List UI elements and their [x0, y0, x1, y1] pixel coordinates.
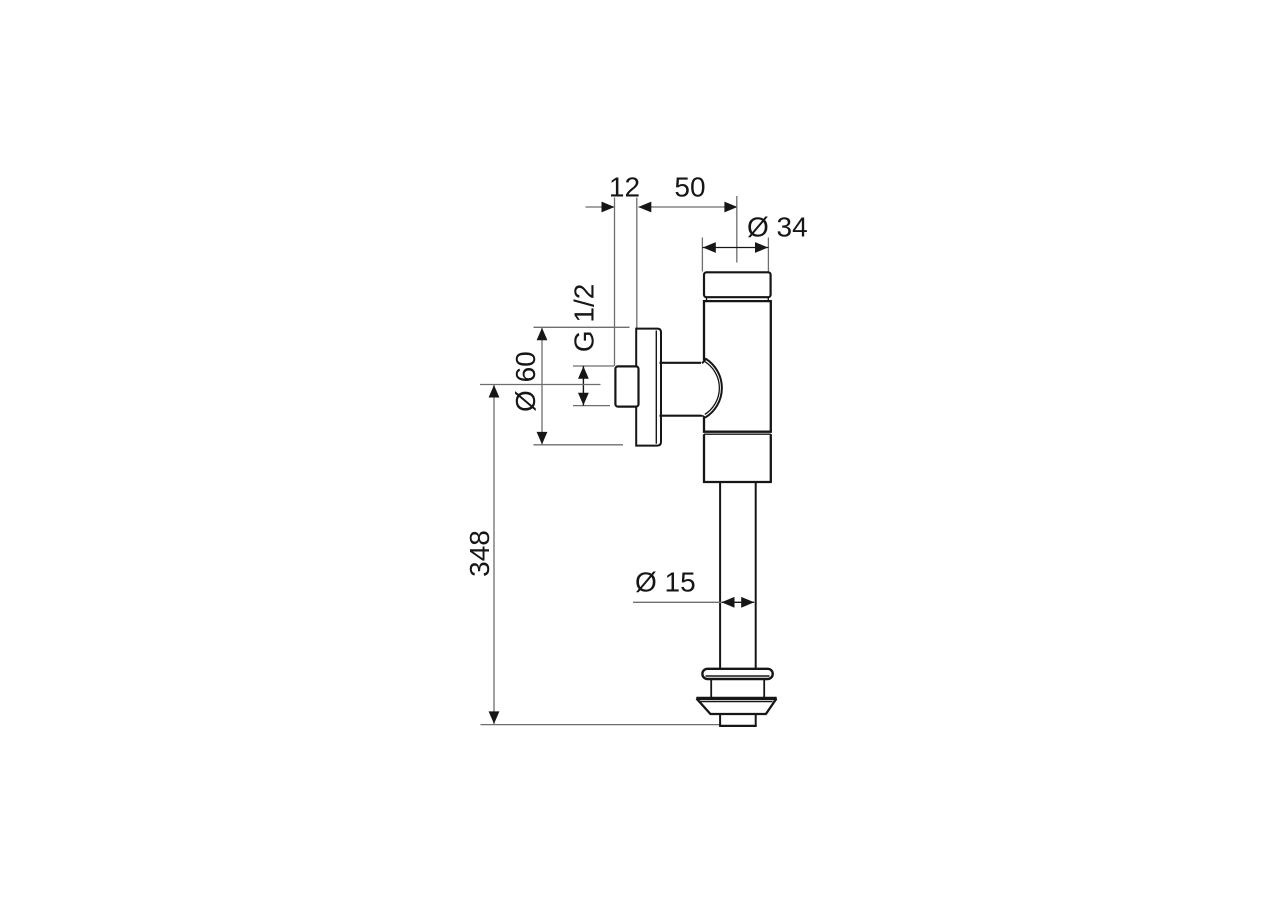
tailpiece capsule inner line — [706, 675, 770, 677]
dimension line 50 — [639, 206, 738, 208]
tailpiece nut right edge — [763, 679, 765, 697]
d15 arrow line — [722, 601, 755, 603]
dimension leader line left of 12 — [586, 206, 615, 208]
svg-text:G 1/2: G 1/2 — [568, 284, 599, 352]
cap collar groove right edge — [767, 297, 769, 301]
cap collar groove left edge — [706, 297, 708, 301]
svg-text:Ø 60: Ø 60 — [510, 351, 541, 412]
svg-text:348: 348 — [464, 530, 495, 577]
svg-text:Ø 15: Ø 15 — [635, 567, 696, 598]
svg-text:50: 50 — [674, 171, 705, 202]
arrowhead pointing right at 12 left extension — [602, 202, 615, 213]
inlet pipe top edge — [660, 362, 703, 364]
tailpiece cone top thick edge — [696, 697, 776, 701]
tailpiece stub left wall — [719, 714, 721, 726]
extension line 12 left — [614, 198, 616, 367]
tailpiece stub bottom edge — [719, 725, 757, 727]
outlet pipe left wall — [719, 483, 721, 669]
d60 arrowhead up — [537, 328, 548, 341]
valve top cap — [704, 272, 771, 297]
G1/2 top extension line — [573, 365, 614, 367]
d15 leader line — [633, 601, 721, 603]
G1/2 arrowhead down — [578, 393, 589, 406]
tailpiece cone bottom edge — [710, 713, 767, 715]
tailpiece cone left side — [697, 699, 711, 715]
tailpiece top flange capsule — [702, 669, 772, 679]
extension line d34 left — [701, 238, 703, 272]
inlet pipe bottom edge — [660, 415, 703, 417]
outlet pipe right wall — [755, 483, 757, 669]
inlet dome outer curve — [702, 359, 722, 417]
d60 dimension line — [541, 327, 543, 445]
d60 bottom extension line — [534, 444, 624, 446]
d15 arrowhead left — [722, 597, 735, 608]
svg-text:Ø 34: Ø 34 — [747, 211, 808, 242]
G1/2 arrowhead up — [578, 366, 589, 379]
tailpiece cone fill — [696, 697, 776, 714]
inlet dome bottom chamfer — [702, 416, 706, 418]
tailpiece nut left edge — [710, 679, 712, 697]
flange inner edge line — [655, 331, 657, 444]
svg-text:12: 12 — [609, 171, 640, 202]
tailpiece cone thin line — [701, 701, 773, 703]
arrowhead 50 right — [724, 202, 737, 213]
valve main body — [704, 301, 771, 432]
extension line d34 right — [767, 238, 769, 272]
348 bottom extension line — [481, 724, 720, 726]
tailpiece cone right side — [766, 699, 777, 715]
348 dimension line — [493, 385, 495, 725]
extension line 12 right / flange edge extension — [636, 198, 638, 330]
348 arrowhead down — [489, 711, 500, 724]
d60 arrowhead down — [537, 432, 548, 445]
centerline above valve cap — [736, 196, 738, 263]
body seam thin line — [704, 433, 771, 435]
arrowhead d34 left — [703, 242, 716, 253]
wall flange plate — [636, 329, 661, 446]
valve lower body — [703, 434, 772, 482]
inlet dome fill — [701, 359, 722, 417]
dimension line d34 — [702, 247, 768, 249]
348 arrowhead up — [489, 385, 500, 398]
d60 top extension line — [534, 326, 630, 328]
d15 arrowhead right — [741, 597, 754, 608]
348 top extension centerline — [480, 384, 601, 386]
arrowhead 50 left — [638, 202, 651, 213]
tailpiece stub right wall — [755, 714, 757, 726]
G1/2 bottom extension line — [573, 405, 610, 407]
inlet dome inner curve — [705, 362, 720, 415]
G1/2 dimension line — [582, 366, 584, 406]
arrowhead d34 right — [755, 242, 768, 253]
threaded nipple G1/2 — [615, 366, 638, 406]
